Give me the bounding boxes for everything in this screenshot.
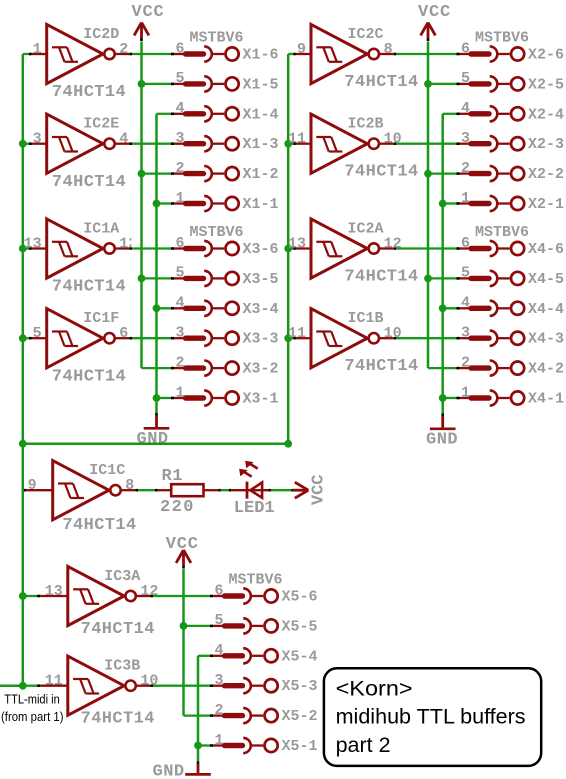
svg-text:<Korn>: <Korn>	[336, 678, 413, 701]
svg-text:midihub TTL buffers: midihub TTL buffers	[336, 706, 526, 729]
svg-text:X3-3: X3-3	[243, 331, 279, 348]
svg-text:IC1F: IC1F	[83, 310, 119, 327]
svg-text:5: 5	[175, 265, 184, 282]
svg-text:2: 2	[461, 354, 470, 371]
svg-text:X3-6: X3-6	[243, 241, 279, 258]
svg-text:5: 5	[461, 70, 470, 87]
svg-text:11: 11	[45, 673, 63, 690]
svg-text:1: 1	[461, 384, 470, 401]
svg-text:IC2E: IC2E	[83, 116, 119, 133]
svg-text:74HCT14: 74HCT14	[344, 357, 418, 376]
svg-text:10: 10	[384, 325, 402, 342]
svg-text:2: 2	[175, 160, 184, 177]
svg-text:X1-2: X1-2	[243, 166, 279, 183]
svg-text:X5-6: X5-6	[282, 589, 318, 606]
svg-text:74HCT14: 74HCT14	[62, 516, 136, 535]
svg-text:13: 13	[45, 583, 63, 600]
svg-text:5: 5	[33, 325, 42, 342]
svg-text:3: 3	[461, 325, 470, 342]
svg-text:R1: R1	[162, 467, 183, 486]
svg-text:8: 8	[125, 477, 134, 494]
svg-text:74HCT14: 74HCT14	[344, 267, 418, 286]
svg-text:X5-3: X5-3	[282, 678, 318, 695]
svg-text:10: 10	[140, 673, 158, 690]
svg-text:11: 11	[288, 325, 306, 342]
svg-text:12: 12	[119, 236, 137, 253]
svg-text:3: 3	[175, 325, 184, 342]
svg-text:74HCT14: 74HCT14	[52, 367, 126, 386]
svg-text:X5-5: X5-5	[282, 618, 318, 635]
svg-text:IC3B: IC3B	[104, 658, 140, 675]
svg-text:4: 4	[175, 295, 184, 312]
svg-text:74HCT14: 74HCT14	[81, 620, 155, 639]
svg-text:LED1: LED1	[234, 499, 275, 518]
svg-text:(from part 1): (from part 1)	[1, 709, 63, 724]
svg-text:IC1A: IC1A	[83, 220, 119, 237]
svg-text:X4-3: X4-3	[528, 331, 564, 348]
svg-text:2: 2	[175, 354, 184, 371]
svg-text:12: 12	[384, 236, 402, 253]
svg-text:MSTBV6: MSTBV6	[190, 29, 244, 46]
svg-text:1: 1	[175, 190, 184, 207]
svg-text:3: 3	[175, 130, 184, 147]
svg-text:5: 5	[214, 612, 223, 629]
svg-text:4: 4	[214, 642, 223, 659]
svg-text:X3-4: X3-4	[243, 301, 279, 318]
svg-text:GND: GND	[137, 430, 169, 449]
svg-text:X3-5: X3-5	[243, 271, 279, 288]
svg-text:1: 1	[461, 190, 470, 207]
svg-text:1: 1	[214, 732, 223, 749]
svg-text:IC2C: IC2C	[348, 26, 384, 43]
svg-text:X1-5: X1-5	[243, 76, 279, 93]
svg-text:X2-6: X2-6	[528, 47, 564, 64]
svg-text:12: 12	[140, 583, 158, 600]
svg-text:3: 3	[461, 130, 470, 147]
svg-text:74HCT14: 74HCT14	[344, 73, 418, 92]
svg-text:6: 6	[119, 325, 128, 342]
svg-text:X2-5: X2-5	[528, 76, 564, 93]
svg-text:TTL-midi in: TTL-midi in	[4, 691, 60, 706]
svg-text:1: 1	[33, 41, 42, 58]
svg-text:X5-2: X5-2	[282, 708, 318, 725]
svg-text:4: 4	[119, 131, 128, 148]
svg-text:X4-2: X4-2	[528, 361, 564, 378]
svg-text:13: 13	[288, 236, 306, 253]
svg-text:X3-2: X3-2	[243, 361, 279, 378]
svg-text:X1-6: X1-6	[243, 47, 279, 64]
svg-text:74HCT14: 74HCT14	[344, 163, 418, 182]
svg-text:3: 3	[33, 131, 42, 148]
svg-text:IC1B: IC1B	[348, 310, 384, 327]
svg-text:220: 220	[160, 498, 195, 517]
svg-text:11: 11	[288, 131, 306, 148]
svg-text:74HCT14: 74HCT14	[52, 83, 126, 102]
svg-text:X4-1: X4-1	[528, 391, 564, 408]
svg-text:1: 1	[175, 384, 184, 401]
svg-text:VCC: VCC	[418, 3, 451, 22]
svg-text:4: 4	[461, 295, 470, 312]
svg-text:4: 4	[461, 100, 470, 117]
svg-text:part 2: part 2	[336, 734, 391, 757]
svg-text:9: 9	[28, 477, 37, 494]
svg-text:2: 2	[461, 160, 470, 177]
svg-text:VCC: VCC	[132, 3, 165, 22]
svg-text:13: 13	[24, 236, 42, 253]
svg-text:X5-4: X5-4	[282, 648, 318, 665]
svg-text:6: 6	[461, 40, 470, 57]
svg-text:6: 6	[214, 582, 223, 599]
svg-text:X4-5: X4-5	[528, 271, 564, 288]
svg-text:9: 9	[297, 41, 306, 58]
svg-text:GND: GND	[426, 431, 458, 450]
svg-text:X1-3: X1-3	[243, 136, 279, 153]
svg-text:X4-6: X4-6	[528, 241, 564, 258]
svg-text:IC1C: IC1C	[89, 462, 125, 479]
svg-text:MSTBV6: MSTBV6	[190, 224, 244, 241]
svg-text:MSTBV6: MSTBV6	[475, 29, 529, 46]
svg-text:X3-1: X3-1	[243, 391, 279, 408]
svg-text:2: 2	[119, 41, 128, 58]
svg-text:2: 2	[214, 702, 223, 719]
svg-text:74HCT14: 74HCT14	[52, 278, 126, 297]
svg-text:3: 3	[214, 672, 223, 689]
svg-text:X1-4: X1-4	[243, 106, 279, 123]
svg-text:6: 6	[175, 235, 184, 252]
svg-text:IC2B: IC2B	[348, 116, 384, 133]
svg-text:8: 8	[384, 41, 393, 58]
svg-text:74HCT14: 74HCT14	[52, 173, 126, 192]
svg-text:X4-4: X4-4	[528, 301, 564, 318]
svg-text:X2-4: X2-4	[528, 106, 564, 123]
svg-text:GND: GND	[153, 763, 185, 779]
svg-text:X2-1: X2-1	[528, 196, 564, 213]
svg-text:X2-3: X2-3	[528, 136, 564, 153]
svg-text:5: 5	[461, 265, 470, 282]
svg-text:IC3A: IC3A	[104, 568, 140, 585]
svg-text:IC2A: IC2A	[348, 220, 384, 237]
svg-text:5: 5	[175, 70, 184, 87]
svg-text:VCC: VCC	[309, 474, 328, 505]
svg-text:6: 6	[461, 235, 470, 252]
svg-text:X2-2: X2-2	[528, 166, 564, 183]
svg-text:MSTBV6: MSTBV6	[475, 224, 529, 241]
svg-text:10: 10	[384, 131, 402, 148]
svg-text:4: 4	[175, 100, 184, 117]
svg-text:X1-1: X1-1	[243, 196, 279, 213]
svg-text:MSTBV6: MSTBV6	[229, 571, 283, 588]
svg-text:74HCT14: 74HCT14	[81, 710, 155, 729]
svg-text:IC2D: IC2D	[83, 26, 119, 43]
svg-text:6: 6	[175, 40, 184, 57]
svg-text:X5-1: X5-1	[282, 738, 318, 755]
